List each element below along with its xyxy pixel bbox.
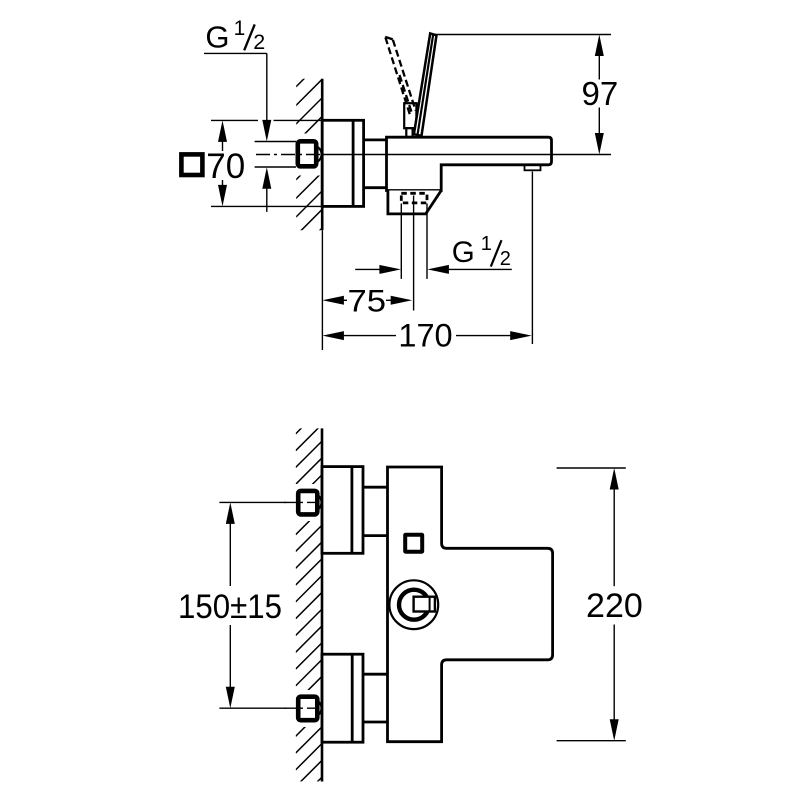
svg-text:2: 2 xyxy=(500,248,511,270)
flange face line xyxy=(352,120,355,206)
small square emblem xyxy=(405,535,422,552)
inlet width extension lines xyxy=(400,204,402,279)
dim 97: reference line top xyxy=(434,34,611,36)
inlet port 1 bulge xyxy=(313,494,322,511)
inlet bulge xyxy=(313,146,322,163)
svg-text:150±15: 150±15 xyxy=(178,588,282,626)
white gap in wall around inlet xyxy=(291,134,322,176)
lever (solid) xyxy=(414,33,437,135)
svg-text:1: 1 xyxy=(481,233,492,255)
svg-text:75: 75 xyxy=(348,282,387,318)
neck between flange and body xyxy=(364,138,387,141)
dim 70 xyxy=(218,120,227,141)
wall hatching (side view) xyxy=(296,60,323,254)
inlet square G1/2 (side) xyxy=(298,141,316,166)
pipe 1 xyxy=(363,486,388,489)
svg-text:2: 2 xyxy=(253,30,265,54)
svg-text:G: G xyxy=(452,236,475,269)
dim 220 xyxy=(610,468,619,490)
hidden inlet thread (dashed) xyxy=(401,193,427,203)
dim 70 extension lines xyxy=(211,119,258,121)
under-block with inlet connections xyxy=(388,191,441,214)
port 2 centerline xyxy=(219,707,286,709)
dim 150±15 xyxy=(226,502,235,524)
centerline axis (dash-dot) xyxy=(256,154,322,156)
svg-text:97: 97 xyxy=(582,75,619,112)
handle axis inner ring xyxy=(399,590,429,620)
inlet port 2 bulge xyxy=(313,700,322,717)
dim G1/2 inlet width xyxy=(355,268,381,270)
flange 2 (front) xyxy=(322,654,363,742)
wall face extension line xyxy=(321,230,323,350)
svg-text:170: 170 xyxy=(398,317,452,353)
wall face line (front) xyxy=(321,428,324,781)
G1/2 leader xyxy=(204,52,267,54)
flange escutcheon (side) xyxy=(322,120,363,206)
body (front) xyxy=(388,467,553,742)
mixer body and spout (side) xyxy=(387,137,552,190)
port 1 centerline xyxy=(219,501,286,503)
svg-text:1: 1 xyxy=(234,17,246,40)
dim 170 xyxy=(322,331,344,340)
wall hatching (front view) xyxy=(296,407,323,800)
handle tab xyxy=(414,597,435,612)
inlet port 1 (G1/2) xyxy=(298,491,317,515)
arrow below inlet xyxy=(262,167,271,189)
centerline through body xyxy=(322,154,611,156)
flange 1 (front) xyxy=(322,467,363,554)
inlet height extension lines xyxy=(255,141,296,143)
spout outlet extension line xyxy=(531,172,533,345)
inlet axis vertical line xyxy=(413,196,415,311)
wall face line xyxy=(321,79,324,230)
white gaps around inlets xyxy=(291,484,322,521)
dim 75 xyxy=(322,296,344,305)
pipe 2 xyxy=(363,673,388,676)
dim 220 extension lines xyxy=(557,467,626,469)
svg-text:70: 70 xyxy=(206,147,245,186)
cartridge cover xyxy=(404,103,416,128)
lever foot xyxy=(406,128,412,137)
handle axis outer circle xyxy=(389,580,438,629)
square symbol xyxy=(181,154,202,175)
dim 97 xyxy=(598,56,600,80)
inlet port 2 (G1/2) xyxy=(298,697,317,721)
svg-text:G: G xyxy=(205,20,229,55)
svg-text:220: 220 xyxy=(586,587,643,625)
lever dashed (second position) xyxy=(385,37,393,40)
spout aerator xyxy=(525,165,541,170)
